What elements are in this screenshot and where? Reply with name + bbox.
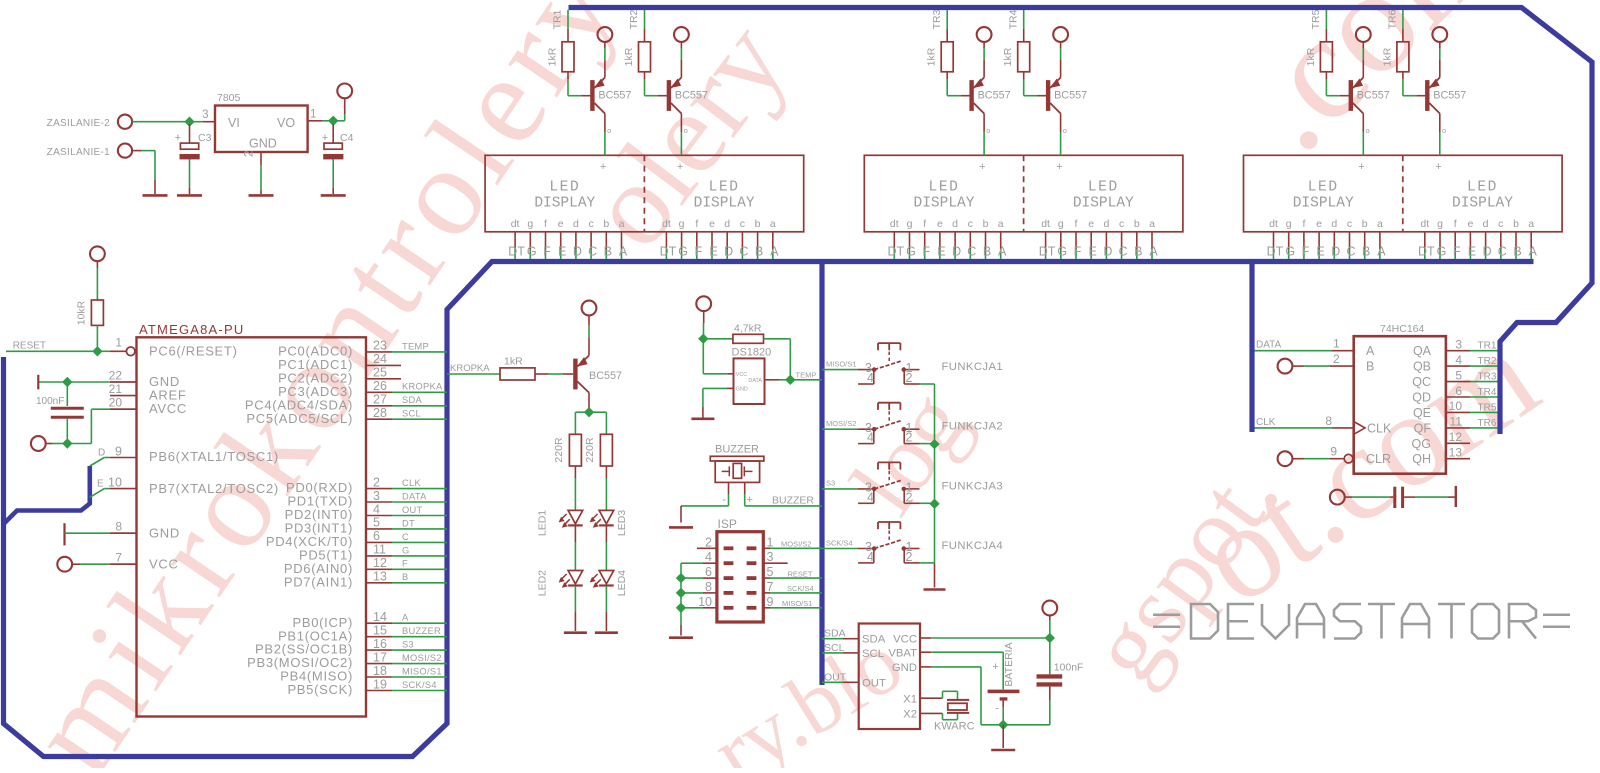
LED display 2 labels: [677, 161, 755, 211]
svg-text:a: a: [619, 218, 625, 230]
svg-text:B: B: [1134, 245, 1142, 259]
net DATA wire: [1255, 337, 1354, 351]
svg-text:o: o: [1063, 126, 1067, 135]
resistor 1kR base of TR1: [547, 9, 575, 71]
svg-text:D: D: [952, 245, 961, 259]
svg-text:7: 7: [767, 580, 774, 594]
pad GND left: [31, 436, 67, 451]
resistor 1kR base of TR6: [1381, 9, 1409, 71]
svg-text:GND: GND: [892, 662, 917, 674]
svg-text:DT: DT: [660, 245, 677, 259]
svg-text:QG: QG: [1412, 437, 1431, 451]
svg-text:C: C: [739, 245, 748, 259]
net BUZZER wire to bus: [745, 482, 822, 506]
svg-text:D: D: [573, 245, 582, 259]
svg-text:+: +: [979, 161, 985, 173]
svg-text:TR2: TR2: [1478, 356, 1497, 367]
svg-text:27: 27: [373, 393, 387, 407]
svg-text:f: f: [1454, 218, 1457, 230]
node junctions ISP gnd column: [676, 573, 686, 583]
svg-text:QE: QE: [1413, 406, 1431, 420]
svg-text:C: C: [1119, 245, 1128, 259]
resistor R5 220R: [584, 434, 612, 466]
svg-text:E: E: [1316, 245, 1324, 259]
svg-text:1kR: 1kR: [1305, 47, 1317, 66]
svg-text:C: C: [402, 532, 409, 542]
svg-text:DATA: DATA: [402, 491, 427, 501]
transistor TR1 BC557: [590, 78, 631, 114]
ground LED column 1: [564, 631, 587, 634]
transistor TR4 BC557: [1046, 78, 1087, 114]
pad VCC pin7: [57, 557, 136, 572]
node junction at C3: [184, 117, 194, 127]
LED display 3 pins to bus: [887, 218, 1007, 259]
pad VCC emitter of TR1: [598, 27, 613, 77]
svg-text:4,7kR: 4,7kR: [734, 323, 762, 335]
node junction DS1820 VCC: [698, 334, 708, 344]
svg-text:e: e: [1088, 218, 1094, 230]
svg-text:+: +: [1435, 161, 1441, 173]
LED display 5 pins to bus: [1267, 218, 1387, 259]
LED display 6 pins to bus: [1418, 218, 1538, 259]
svg-text:GND: GND: [249, 137, 277, 151]
svg-text:d: d: [1331, 218, 1337, 230]
transistor TR6 BC557: [1425, 78, 1466, 114]
svg-text:c: c: [1119, 218, 1124, 230]
switch FUNKCJA2: [822, 403, 1003, 445]
svg-text:2: 2: [1333, 352, 1340, 366]
svg-text:o: o: [607, 126, 611, 135]
svg-text:a: a: [1149, 218, 1155, 230]
ATMEGA right pin wires to bus: [366, 339, 447, 692]
LED display 1 pins to bus: [508, 218, 628, 259]
svg-text:TR5: TR5: [1478, 402, 1497, 413]
svg-text:9: 9: [1330, 445, 1337, 459]
svg-text:X1: X1: [903, 694, 917, 706]
svg-text:b: b: [1134, 218, 1140, 230]
svg-text:5: 5: [373, 516, 380, 530]
net RESET wire: [6, 341, 126, 352]
svg-text:QA: QA: [1413, 344, 1432, 358]
ground RTC: [991, 749, 1015, 752]
svg-text:PB5(SCK): PB5(SCK): [287, 682, 353, 697]
svg-text:DISPLAY: DISPLAY: [1293, 195, 1354, 211]
pad VCC emitter T7: [582, 301, 597, 356]
svg-text:1kR: 1kR: [623, 47, 635, 66]
svg-text:23: 23: [373, 339, 387, 353]
svg-text:VCC: VCC: [149, 556, 179, 571]
resistor 1kR base of TR2: [623, 9, 651, 71]
svg-text:F: F: [694, 245, 702, 259]
svg-text:a: a: [1528, 218, 1534, 230]
LED LED4: [590, 570, 628, 596]
svg-text:e: e: [558, 218, 564, 230]
svg-text:1kR: 1kR: [1002, 47, 1014, 66]
svg-text:BC557: BC557: [1433, 90, 1466, 102]
wire buzzer minus to ground: [681, 482, 729, 522]
svg-text:BUZZER: BUZZER: [715, 444, 759, 456]
svg-text:F: F: [402, 559, 408, 569]
svg-text:BC557: BC557: [1357, 90, 1390, 102]
74HC164 output wires QA-QF to bus: [1446, 338, 1498, 460]
svg-text:4: 4: [373, 502, 380, 516]
resistor R4 220R: [553, 434, 581, 466]
svg-text:DISPLAY: DISPLAY: [1073, 195, 1134, 211]
wire collector of TR1 to display: [605, 114, 611, 156]
svg-text:8: 8: [1325, 414, 1332, 428]
wire GND pin8: [65, 523, 137, 545]
svg-text:g: g: [1437, 218, 1443, 230]
svg-text:SCL: SCL: [402, 409, 421, 419]
svg-text:6: 6: [1455, 384, 1462, 398]
svg-text:C: C: [967, 245, 976, 259]
voltage regulator IC1 7805: [202, 92, 316, 157]
svg-text:LED: LED: [1308, 179, 1339, 195]
svg-text:A: A: [1149, 245, 1158, 259]
svg-text:3: 3: [202, 109, 208, 121]
node junction RESET: [92, 346, 102, 356]
svg-text:a: a: [998, 218, 1004, 230]
svg-text:19: 19: [373, 677, 387, 691]
svg-text:2: 2: [244, 151, 256, 157]
pad VCC emitter of TR4: [1053, 27, 1068, 77]
svg-text:c: c: [588, 218, 593, 230]
wire XTAL D pin9: [90, 445, 137, 467]
svg-text:BUZZER: BUZZER: [402, 626, 441, 636]
svg-text:PC5(ADC5/SCL): PC5(ADC5/SCL): [246, 411, 353, 426]
svg-text:B: B: [604, 245, 612, 259]
ISP right pin wires 1,3,5,7,9: [763, 535, 822, 609]
svg-text:PB6(XTAL1/TOSC1): PB6(XTAL1/TOSC1): [149, 449, 279, 464]
svg-text:-: -: [722, 494, 726, 506]
net SCL wire: [822, 642, 859, 654]
wire collector of TR3 to display: [984, 114, 990, 156]
node junction battery gnd: [998, 720, 1008, 730]
ground ISP: [669, 636, 693, 639]
bus main loop (left + display segment bus): [4, 262, 1534, 757]
svg-text:C: C: [1346, 245, 1355, 259]
svg-text:+: +: [600, 161, 606, 173]
svg-text:d: d: [952, 218, 958, 230]
LED LED1: [537, 510, 583, 536]
svg-text:BUZZER: BUZZER: [772, 494, 814, 506]
resistor 1kR base of TR4: [1002, 9, 1029, 71]
svg-text:9: 9: [115, 445, 122, 459]
svg-text:c: c: [1347, 218, 1352, 230]
svg-text:28: 28: [373, 406, 387, 420]
wire base of TR4: [1024, 72, 1046, 96]
svg-text:A: A: [402, 613, 409, 623]
LED display 4 pins to bus: [1039, 218, 1159, 259]
svg-text:5: 5: [1455, 368, 1462, 382]
svg-text:FUNKCJA4: FUNKCJA4: [942, 540, 1004, 552]
svg-text:TR6: TR6: [1387, 9, 1399, 29]
svg-text:DT: DT: [887, 245, 904, 259]
svg-text:VBAT: VBAT: [888, 648, 917, 660]
svg-text:F: F: [1302, 245, 1310, 259]
RTC IC3 box: [859, 624, 920, 730]
svg-text:b: b: [603, 218, 609, 230]
svg-text:g: g: [1058, 218, 1064, 230]
svg-text:TR4: TR4: [1007, 9, 1019, 29]
wire collector of TR2 to display: [681, 114, 687, 156]
net CLK wire: [1255, 414, 1354, 428]
svg-text:A: A: [770, 245, 779, 259]
svg-text:G: G: [527, 245, 537, 259]
svg-text:VI: VI: [228, 116, 240, 130]
svg-text:4: 4: [705, 550, 712, 564]
wire DS1820 GND: [703, 388, 734, 417]
svg-text:B: B: [402, 572, 409, 582]
ATMEGA right inside pin names: [245, 344, 353, 698]
svg-text:B: B: [1366, 360, 1374, 374]
svg-text:F: F: [1074, 245, 1082, 259]
svg-text:FUNKCJA2: FUNKCJA2: [942, 421, 1004, 433]
svg-text:FUNKCJA1: FUNKCJA1: [942, 361, 1004, 373]
svg-text:D: D: [1103, 245, 1112, 259]
svg-text:MOSI/S2: MOSI/S2: [781, 540, 811, 549]
svg-text:MOSI/S2: MOSI/S2: [826, 419, 856, 428]
svg-text:G: G: [1057, 245, 1067, 259]
svg-text:TR1: TR1: [552, 9, 564, 29]
pad VCC emitter of TR5: [1356, 27, 1371, 77]
svg-text:QH: QH: [1412, 452, 1431, 466]
LED display pair 3 outline: [1244, 155, 1563, 232]
svg-text:2: 2: [906, 431, 913, 445]
wire LED4 to ground: [605, 586, 607, 631]
svg-text:C3: C3: [198, 132, 212, 144]
svg-text:d: d: [1483, 218, 1489, 230]
node junctions switch column: [929, 439, 939, 449]
wire 7805 GND pin 2: [260, 152, 262, 194]
wire base of TR2: [645, 72, 667, 96]
svg-text:TR1: TR1: [1478, 341, 1497, 352]
svg-text:LED: LED: [1467, 179, 1498, 195]
LED LED2: [537, 570, 583, 596]
ISP left pin wires 2,4,6,8,10: [681, 535, 717, 609]
svg-text:VCC: VCC: [893, 633, 917, 645]
svg-text:220R: 220R: [553, 437, 565, 463]
svg-text:4: 4: [867, 550, 874, 564]
pad B input: [1278, 352, 1354, 373]
pad VCC for reset pullup: [90, 246, 105, 300]
svg-text:QC: QC: [1412, 375, 1431, 389]
svg-text:PD7(AIN1): PD7(AIN1): [284, 574, 353, 589]
svg-text:MISO/S1: MISO/S1: [826, 359, 856, 368]
svg-text:26: 26: [373, 379, 387, 393]
pad VCC emitter of TR2: [674, 27, 689, 77]
svg-text:100nF: 100nF: [36, 396, 64, 407]
svg-text:f: f: [923, 218, 926, 230]
transistor TR3 BC557: [969, 78, 1010, 114]
svg-text:3: 3: [767, 550, 774, 564]
svg-text:dt: dt: [890, 218, 899, 230]
battery BATERIA: [988, 642, 1020, 724]
wire to LED1: [574, 466, 576, 510]
LED display pair 1 outline: [485, 155, 804, 232]
wire ZASILANIE-1 to ground: [132, 151, 155, 194]
svg-text:KROPKA: KROPKA: [450, 363, 490, 374]
svg-text:B: B: [1513, 245, 1521, 259]
svg-text:SCK/S4: SCK/S4: [787, 584, 814, 593]
wire GND pin22 with ground bar: [38, 375, 136, 390]
LED display 2 pins to bus: [660, 218, 780, 259]
svg-text:RESET: RESET: [13, 341, 46, 352]
svg-text:7805: 7805: [217, 92, 241, 104]
svg-text:LED1: LED1: [537, 510, 549, 536]
svg-text:LED4: LED4: [616, 570, 628, 596]
node junction below 100nF: [62, 438, 72, 448]
connector pad ZASILANIE-1: [47, 144, 132, 159]
wire 1kR to T7 base: [535, 373, 573, 375]
svg-text:GND: GND: [736, 387, 748, 393]
wire RTC GND: [920, 667, 1050, 725]
svg-text:C: C: [1498, 245, 1507, 259]
svg-text:F: F: [1453, 245, 1461, 259]
svg-text:dt: dt: [1269, 218, 1278, 230]
capacitor C7 at 74HC164: [1330, 486, 1456, 508]
wire ISP ground: [680, 608, 682, 636]
wire switches common to ground: [920, 384, 935, 588]
svg-text:4: 4: [867, 431, 874, 445]
resistor R2 10kR: [76, 300, 104, 325]
svg-text:a: a: [1377, 218, 1383, 230]
svg-text:9: 9: [767, 595, 774, 609]
svg-text:CLK: CLK: [1256, 417, 1276, 428]
switch FUNKCJA1: [822, 343, 1003, 385]
svg-text:d: d: [724, 218, 730, 230]
crystal KWARC: [920, 691, 975, 732]
pad VCC emitter of TR6: [1432, 27, 1447, 77]
svg-text:2: 2: [906, 371, 913, 385]
bus top (TR1-TR6 feed): [569, 8, 1593, 435]
svg-text:E: E: [558, 245, 566, 259]
svg-text:b: b: [1362, 218, 1368, 230]
svg-text:A: A: [619, 245, 628, 259]
svg-text:VCC: VCC: [736, 372, 747, 378]
svg-text:g: g: [679, 218, 685, 230]
switch FUNKCJA4: [822, 522, 1003, 564]
wire base of TR3: [947, 72, 969, 96]
svg-text:+: +: [677, 161, 683, 173]
svg-text:dt: dt: [662, 218, 671, 230]
svg-text:MOSI/S2: MOSI/S2: [402, 653, 442, 663]
svg-text:LED: LED: [1088, 179, 1119, 195]
ground at ZASILANIE-1: [143, 194, 168, 197]
svg-text:13: 13: [373, 570, 387, 584]
svg-text:BATERIA: BATERIA: [1003, 642, 1015, 686]
net KROPKA wire from bus: [447, 363, 500, 374]
svg-text:6: 6: [705, 565, 712, 579]
svg-text:25: 25: [373, 366, 387, 380]
svg-text:c: c: [1498, 218, 1503, 230]
svg-text:CLK: CLK: [402, 478, 421, 488]
wire DS1820 VCC pin: [703, 339, 733, 374]
svg-text:G: G: [678, 245, 688, 259]
svg-text:MISO/S1: MISO/S1: [402, 666, 442, 676]
svg-text:13: 13: [1449, 446, 1463, 460]
svg-text:1kR: 1kR: [1381, 47, 1393, 66]
svg-text:C4: C4: [340, 132, 354, 144]
svg-text:E: E: [937, 245, 945, 259]
transistor TR2 BC557: [667, 78, 708, 114]
svg-text:1: 1: [767, 535, 774, 549]
resistor R6 4,7kR: [703, 323, 790, 380]
svg-text:10kR: 10kR: [76, 300, 88, 325]
ground at C4: [321, 194, 346, 197]
node junction RTC VCC: [1045, 633, 1055, 643]
svg-text:B: B: [983, 245, 991, 259]
switch FUNKCJA3: [822, 462, 1003, 504]
svg-text:S3: S3: [826, 479, 835, 488]
wire AVCC pin20: [67, 409, 136, 443]
svg-text:20: 20: [109, 396, 123, 410]
bus DATA/CLK vertical (74HC164): [1249, 262, 1254, 433]
LED display pair 2 outline: [864, 155, 1183, 232]
svg-text:AVCC: AVCC: [149, 401, 187, 416]
svg-text:A: A: [1366, 344, 1375, 358]
svg-text:A: A: [1529, 245, 1538, 259]
svg-text:D: D: [724, 245, 733, 259]
svg-text:o: o: [986, 126, 990, 135]
svg-text:1: 1: [1333, 337, 1340, 351]
svg-text:CLK: CLK: [1367, 421, 1392, 435]
bus crystal D/E: [4, 466, 90, 524]
svg-text:f: f: [1075, 218, 1078, 230]
svg-text:12: 12: [1449, 430, 1463, 444]
svg-text:b: b: [755, 218, 761, 230]
svg-text:LED2: LED2: [537, 570, 549, 596]
node junction pin22: [62, 377, 72, 387]
svg-text:ATMEGA8A-PU: ATMEGA8A-PU: [139, 322, 244, 337]
svg-text:PC6(/RESET): PC6(/RESET): [149, 344, 238, 359]
svg-text:6: 6: [373, 529, 380, 543]
svg-text:e: e: [1467, 218, 1473, 230]
svg-text:DT: DT: [1418, 245, 1435, 259]
svg-text:2: 2: [705, 535, 712, 549]
svg-text:LED: LED: [929, 179, 960, 195]
ground switches: [924, 588, 946, 591]
svg-text:FUNKCJA3: FUNKCJA3: [942, 480, 1004, 492]
pad VCC RTC: [1042, 601, 1057, 638]
svg-text:G: G: [402, 545, 410, 555]
svg-text:11: 11: [373, 543, 386, 557]
svg-text:8: 8: [115, 520, 122, 534]
svg-text:10: 10: [108, 475, 122, 489]
wire base of TR5: [1326, 72, 1348, 96]
svg-text:+: +: [1056, 161, 1062, 173]
svg-text:d: d: [573, 218, 579, 230]
svg-text:18: 18: [373, 664, 387, 678]
svg-text:SCK/S4: SCK/S4: [402, 680, 437, 690]
svg-text:f: f: [695, 218, 698, 230]
svg-text:GND: GND: [149, 525, 180, 540]
ground LED column 2: [595, 631, 618, 634]
resistor R3 1kR KROPKA: [500, 356, 535, 381]
node junction at C4: [328, 116, 338, 126]
ATMEGA left inside pin names: [149, 344, 279, 572]
svg-text:-: -: [995, 703, 999, 715]
net TEMP wire to bus: [790, 371, 822, 380]
ground DS1820: [691, 417, 714, 420]
svg-text:B: B: [755, 245, 763, 259]
net SDA wire: [822, 628, 859, 640]
LED display 4 labels: [1056, 161, 1134, 211]
svg-text:ZASILANIE-2: ZASILANIE-2: [47, 118, 110, 129]
svg-text:4: 4: [867, 371, 874, 385]
svg-text:e: e: [937, 218, 943, 230]
svg-text:OUT: OUT: [402, 505, 423, 515]
